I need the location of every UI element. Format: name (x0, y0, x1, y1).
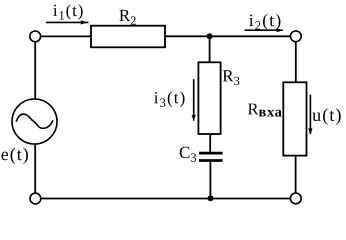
node bottom-left terminal (30, 193, 41, 204)
node bottom-right terminal (290, 193, 301, 204)
node junction top (207, 33, 213, 39)
wire Rвха to bottom-right terminal (295, 156, 297, 193)
wire C3 to bottom (209, 162, 211, 199)
node top-right terminal (290, 31, 301, 42)
arrow u (308, 95, 312, 135)
wire junction to R3 (209, 36, 211, 62)
resistor R2 (91, 26, 165, 48)
capacitor C3 (199, 153, 223, 160)
wire R3 to C3 (209, 134, 211, 152)
arrow i3 (192, 79, 196, 121)
node junction bottom (208, 195, 214, 201)
wire bottom horizontal (41, 198, 290, 200)
wire top-right terminal down (295, 42, 297, 83)
svg-text:i3(t): i3(t) (154, 88, 187, 110)
arrow i1 (46, 20, 89, 24)
source e(t) (12, 99, 57, 144)
wire top-middle horizontal (165, 35, 290, 37)
resistor Rвха (283, 82, 306, 155)
svg-text:u(t): u(t) (312, 105, 342, 126)
node top-left terminal (30, 31, 41, 42)
wire source to bottom-left terminal (34, 144, 36, 193)
wire top-left horizontal (41, 35, 92, 37)
svg-text:i1(t): i1(t) (53, 1, 85, 23)
svg-text:e(t): e(t) (1, 144, 30, 165)
svg-text:i2(t): i2(t) (249, 10, 283, 33)
arrow i2 (245, 28, 284, 32)
wire top-left terminal to source (34, 42, 36, 99)
resistor R3 (198, 62, 220, 134)
